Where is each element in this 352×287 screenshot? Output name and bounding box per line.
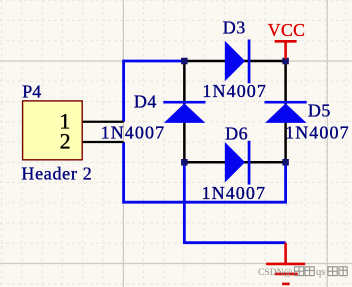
svg-text:D4: D4: [134, 92, 157, 112]
svg-text:Header 2: Header 2: [21, 164, 92, 184]
svg-text:D3: D3: [223, 18, 246, 38]
svg-text:VCC: VCC: [268, 20, 306, 40]
svg-text:CSDN@: CSDN@: [258, 267, 293, 278]
svg-text:qs: qs: [316, 267, 325, 278]
svg-text:1N4007: 1N4007: [202, 81, 267, 101]
svg-text:1N4007: 1N4007: [101, 122, 166, 142]
svg-text:1N4007: 1N4007: [202, 183, 267, 203]
svg-text:1N4007: 1N4007: [285, 123, 350, 143]
svg-text:P4: P4: [22, 82, 41, 102]
svg-text:2: 2: [60, 129, 71, 154]
svg-text:D6: D6: [225, 123, 248, 143]
svg-text:D5: D5: [308, 101, 331, 121]
